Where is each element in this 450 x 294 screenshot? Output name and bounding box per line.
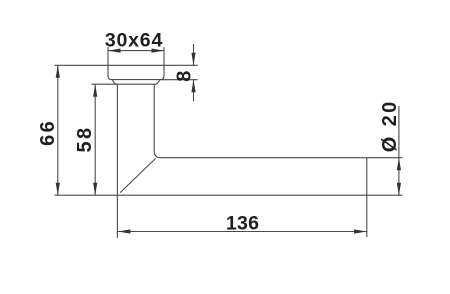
svg-text:Ø 20: Ø 20 (379, 99, 401, 152)
arrow left of 30x64 (108, 49, 121, 53)
dimension 30x64 (108, 50, 164, 52)
svg-text:136: 136 (226, 212, 259, 234)
dimension 8 (rosette thickness) (160, 44, 198, 102)
svg-text:30x64: 30x64 (105, 30, 163, 52)
rosette (30x64) with extension lines up (108, 47, 164, 80)
arrow left (136) (118, 229, 130, 233)
stem left edge + extension down to 136 dim (116, 84, 118, 238)
arrow down to lever bottom (d20) (397, 183, 401, 196)
dimension diameter 20 (398, 106, 400, 195)
arrow up (58) (93, 84, 97, 97)
elbow miter diagonal (120, 159, 155, 193)
wall line (54, 64, 197, 66)
dimension 66 (57, 65, 59, 195)
arrow right (136) (354, 229, 367, 233)
stem right edge, elbow fillet, lever top line + extension right (154, 84, 402, 158)
lever bottom line + extensions both sides (54, 194, 402, 196)
arrow right of 30x64 (152, 49, 165, 53)
svg-text:8: 8 (174, 71, 196, 82)
arrow down to wall line (8 dim) (191, 53, 195, 66)
dimension 58 (92, 84, 118, 195)
arrow up (66) (56, 65, 60, 78)
arrow down (66) (56, 183, 60, 196)
dimension 136 (118, 231, 367, 233)
svg-text:66: 66 (37, 119, 59, 146)
lever right end + extension down to 136 dim (366, 158, 368, 237)
svg-text:58: 58 (74, 125, 96, 152)
arrow up to rosette bottom (8 dim) (191, 80, 195, 93)
arrow up to lever top (d20) (397, 158, 401, 171)
arrow down (58) (93, 183, 97, 196)
collar under rosette (112, 80, 160, 85)
